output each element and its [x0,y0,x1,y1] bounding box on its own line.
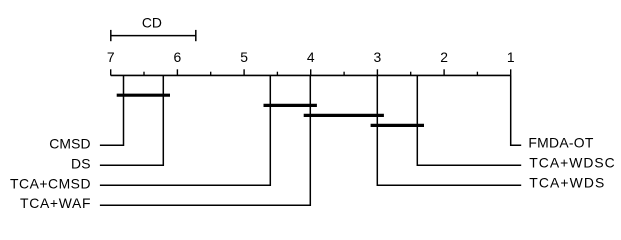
major tick 1 [510,69,512,75]
svg-text:5: 5 [240,49,248,65]
major tick 7 [110,69,112,75]
axis number 4 [307,49,315,65]
svg-text:3: 3 [374,49,382,65]
stem TCA+WDSC [417,76,521,166]
stem FMDA-OT [511,76,522,146]
axis number 3 [374,49,382,65]
label TCA+WAF [20,195,91,211]
clique bar 4 (TCA+WDS-TCA+WDSC) [371,124,424,127]
svg-text:CD: CD [142,14,162,30]
svg-text:6: 6 [174,49,182,65]
stem TCA+WAF [100,76,310,206]
clique bar 3 (TCA+WAF-TCA+WDS) [304,114,384,117]
svg-text:TCA+WDS: TCA+WDS [529,175,604,191]
svg-text:FMDA-OT: FMDA-OT [528,135,594,151]
label TCA+CMSD [10,176,91,192]
label CMSD [49,136,90,152]
svg-text:TCA+WAF: TCA+WAF [20,195,91,211]
svg-text:TCA+CMSD: TCA+CMSD [10,176,91,192]
svg-text:CMSD: CMSD [49,136,90,152]
clique bar 2 (TCA+CMSD-TCA+WAF) [264,104,317,107]
stem TCA+CMSD [100,76,270,186]
axis line [111,74,511,76]
svg-text:2: 2 [440,49,448,65]
CD bracket [111,30,196,41]
label TCA+WDSC [529,155,614,171]
label DS [71,156,91,172]
major tick 3 [376,69,378,75]
major tick 2 [443,69,445,75]
CD label [142,14,162,30]
major tick 5 [243,69,245,75]
svg-text:7: 7 [107,49,115,65]
svg-text:DS: DS [71,156,91,172]
axis number 5 [240,49,248,65]
axis number 7 [107,49,115,65]
label TCA+WDS [529,175,604,191]
axis number 1 [507,49,515,65]
label FMDA-OT [528,135,594,151]
axis number 6 [174,49,182,65]
major tick 4 [310,69,312,75]
svg-text:4: 4 [307,49,315,65]
stem TCA+WDS [377,76,521,186]
clique bar 1 (CMSD-DS) [117,94,170,97]
minor ticks [144,72,477,76]
major tick 6 [176,69,178,75]
stem CMSD [100,76,124,146]
svg-text:TCA+WDSC: TCA+WDSC [529,155,614,171]
axis number 2 [440,49,448,65]
stem DS [100,76,163,166]
svg-text:1: 1 [507,49,515,65]
